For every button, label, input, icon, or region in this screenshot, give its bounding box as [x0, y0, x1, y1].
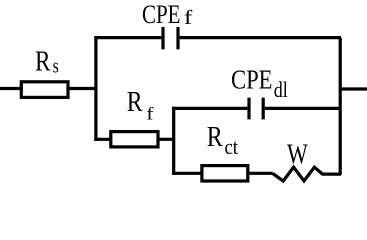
svg-text:CPE: CPE	[231, 64, 273, 94]
svg-text:R: R	[207, 122, 223, 153]
capacitor CPE_dl	[249, 98, 263, 120]
wire input lead	[0, 87, 22, 90]
svg-text:CPE: CPE	[142, 0, 181, 29]
svg-text:W: W	[287, 140, 308, 171]
Warburg element W zigzag	[273, 167, 341, 181]
node C vertical junction	[172, 107, 175, 175]
capacitor CPE_f	[163, 27, 178, 49]
svg-text:s: s	[53, 55, 59, 77]
node A vertical junction	[94, 38, 97, 141]
svg-text:R: R	[127, 87, 143, 118]
svg-text:ct: ct	[225, 134, 239, 159]
node B vertical junction	[339, 38, 342, 175]
wire R_s to node A	[68, 87, 96, 90]
wire CPE_dl branch right	[265, 107, 341, 110]
wire CPE_dl branch left	[172, 107, 247, 110]
wire R_f to node C	[158, 138, 174, 141]
resistor R_f	[111, 132, 158, 147]
wire top branch right	[180, 36, 341, 39]
resistor R_ct	[202, 166, 248, 181]
svg-text:f: f	[184, 8, 193, 29]
wire output lead	[340, 87, 367, 90]
wire top branch left	[94, 36, 161, 39]
svg-text:R: R	[35, 47, 51, 78]
wire R_ct to W	[248, 172, 273, 175]
svg-text:f: f	[146, 103, 153, 123]
resistor R_s	[21, 82, 68, 98]
svg-text:dl: dl	[274, 77, 288, 102]
wire R_f branch left	[94, 138, 111, 141]
wire R_ct branch left	[172, 172, 202, 175]
